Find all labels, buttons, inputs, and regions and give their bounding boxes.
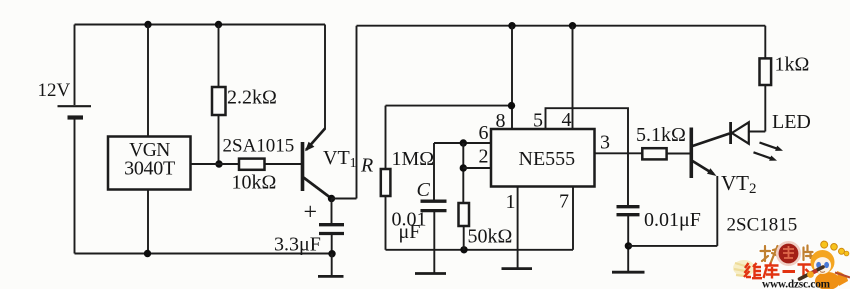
- wire 3.3uF lower lead: [331, 234, 333, 254]
- wire right riser to rail 2: [356, 26, 358, 199]
- watermark yellow glow: [733, 260, 755, 276]
- watermark char zhao: [761, 246, 783, 262]
- wire VT2 emitter down: [716, 176, 718, 246]
- wire pin 8: [511, 26, 513, 129]
- svg-text:3.3μF: 3.3μF: [274, 234, 321, 256]
- wire pin 1 to ground: [517, 187, 519, 269]
- capacitor 3.3uF bottom plate: [319, 232, 344, 235]
- resistor 10k: [239, 159, 265, 170]
- node pin8 rail junction: [508, 22, 515, 29]
- svg-text:5: 5: [533, 110, 543, 132]
- svg-text:2: 2: [479, 146, 489, 168]
- node emitter return junction: [625, 242, 632, 249]
- wire R upper lead: [385, 106, 387, 169]
- LED emission arrow 2: [754, 152, 774, 159]
- LED emission arrow 1: [760, 143, 780, 150]
- transistor VT2 emitter diagonal with arrow: [693, 161, 714, 174]
- resistor 1k: [760, 58, 772, 85]
- svg-text:2SC1815: 2SC1815: [727, 215, 798, 236]
- capacitor 0.01uF right bottom plate: [617, 213, 640, 216]
- ground G2: [415, 272, 446, 275]
- wire 50k lower lead: [463, 226, 465, 250]
- wire pin 6: [434, 142, 491, 144]
- watermark text weikuyixia: [744, 263, 812, 279]
- wire collector junction to right riser: [332, 198, 357, 200]
- wire top rail right: [357, 25, 766, 27]
- wire battery top: [74, 25, 76, 106]
- wire top rail left (+12V rail): [75, 24, 326, 26]
- ground G1: [318, 275, 344, 278]
- svg-text:1: 1: [506, 191, 516, 213]
- wire battery bottom: [74, 119, 76, 254]
- wire R top corner to pin8: [386, 105, 512, 107]
- wire R lower lead: [385, 196, 387, 250]
- resistor 50k: [459, 203, 470, 226]
- wire ground stub 3.3uF: [331, 254, 333, 277]
- wire C branch corner down: [433, 143, 435, 201]
- svg-text:1kΩ: 1kΩ: [775, 54, 810, 76]
- svg-text:0.01μF: 0.01μF: [644, 209, 701, 231]
- resistor 5.1k: [642, 148, 666, 159]
- svg-text:5.1kΩ: 5.1kΩ: [636, 124, 686, 146]
- watermark chip logo circle: [777, 242, 799, 264]
- svg-text:8: 8: [496, 110, 506, 132]
- transistor VT1 emitter diagonal with arrow: [306, 129, 325, 151]
- node bottom rail end junction: [328, 250, 335, 257]
- wire 2.2k upper lead: [218, 25, 220, 88]
- IC U1 VGN3040T box: [108, 137, 191, 190]
- node 2.2k top junction: [215, 21, 222, 28]
- svg-text:3: 3: [600, 132, 610, 154]
- svg-text:www.dzsc.com: www.dzsc.com: [762, 279, 831, 289]
- transistor VT1 collector diagonal: [304, 178, 332, 199]
- svg-text:R: R: [360, 155, 373, 177]
- svg-text:+: +: [304, 200, 318, 226]
- wire pin 7 down: [572, 187, 574, 250]
- resistor R 1M: [381, 169, 391, 196]
- IC U2 NE555 box: [491, 129, 595, 187]
- watermark mascot: [800, 241, 850, 289]
- node base junction: [215, 160, 222, 167]
- node VGN top junction: [144, 21, 151, 28]
- svg-text:C: C: [417, 179, 431, 201]
- svg-text:μF: μF: [399, 221, 421, 243]
- battery 12V positive plate: [58, 105, 92, 107]
- wire 10k to VT1 base: [265, 163, 302, 165]
- wire pin 4: [572, 26, 574, 129]
- wire pin 2: [463, 167, 491, 169]
- node pin6 tie junction: [460, 139, 467, 146]
- wire VT1 emitter to top rail: [324, 25, 326, 130]
- wire pin 3 output: [595, 152, 643, 154]
- svg-text:7: 7: [559, 191, 569, 213]
- resistor 2.2k: [212, 87, 226, 115]
- transistor Q2 VT2 base bar: [689, 128, 693, 179]
- wire LED anode: [749, 131, 766, 133]
- capacitor 0.01uF right top plate: [617, 205, 640, 208]
- ground G4: [612, 271, 645, 274]
- wire VGN output to 10k: [191, 163, 240, 165]
- svg-text:3040T: 3040T: [124, 158, 175, 180]
- node pin4 rail junction: [569, 22, 576, 29]
- transistor VT2 collector diagonal: [693, 134, 730, 147]
- wire 1k lower lead corner: [764, 85, 766, 132]
- svg-text:4: 4: [562, 109, 572, 131]
- svg-text:50kΩ: 50kΩ: [468, 226, 513, 248]
- svg-text:12V: 12V: [38, 80, 71, 101]
- ground G3: [502, 267, 533, 270]
- wire VGN to top rail: [147, 25, 149, 137]
- svg-text:NE555: NE555: [519, 148, 576, 170]
- wire 0.01uF lower lead: [627, 215, 629, 272]
- wire C lower lead to ground: [433, 211, 435, 273]
- svg-text:2.2kΩ: 2.2kΩ: [227, 87, 277, 109]
- wire emitter return: [628, 245, 717, 247]
- battery 12V negative plate: [68, 115, 84, 119]
- wire bottom rail left: [75, 253, 333, 255]
- node pin2 tie junction: [460, 164, 467, 171]
- wire VGN to bottom rail: [147, 190, 149, 254]
- capacitor C bottom plate: [421, 209, 447, 212]
- svg-text:10kΩ: 10kΩ: [232, 172, 277, 194]
- capacitor 3.3uF upper lead: [331, 199, 333, 225]
- node 50k bottom junction: [460, 246, 467, 253]
- node VT1 collector junction: [328, 195, 335, 202]
- svg-text:2SA1015: 2SA1015: [223, 136, 295, 157]
- LED cathode bar: [729, 122, 732, 144]
- wire 1k upper lead: [764, 26, 766, 59]
- capacitor C top plate: [421, 200, 447, 203]
- LED triangle: [732, 122, 749, 143]
- wire pin 5 route up and right: [546, 108, 629, 206]
- wire bottom mid (R to pin7): [386, 249, 574, 251]
- wire 5.1k to VT2 base: [667, 153, 690, 155]
- capacitor 3.3uF top plate: [319, 223, 344, 226]
- svg-text:6: 6: [479, 122, 489, 144]
- wire 2.2k lower lead: [218, 115, 220, 164]
- watermark char pian: [804, 246, 813, 261]
- wire pins 2-6 tie: [462, 143, 464, 203]
- svg-text:1MΩ: 1MΩ: [392, 148, 435, 170]
- transistor Q1 VT1 base bar: [301, 142, 305, 191]
- svg-text:LED: LED: [772, 111, 811, 133]
- node pin8 R junction: [508, 102, 515, 109]
- node VGN bottom junction: [144, 250, 151, 257]
